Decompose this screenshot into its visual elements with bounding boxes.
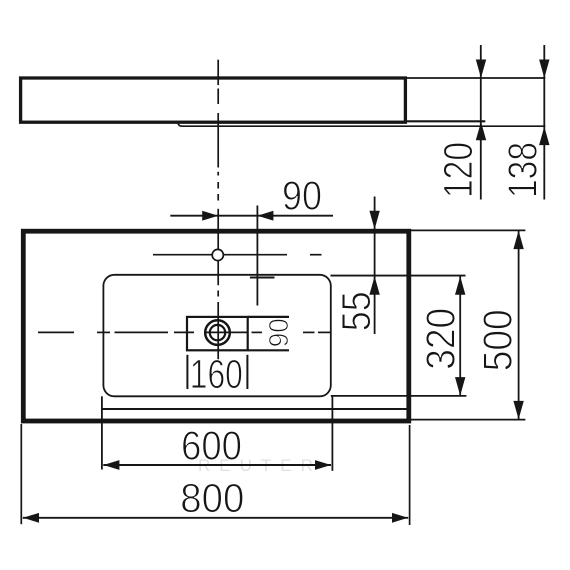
dimension 120 top arrow	[476, 60, 486, 79]
dimension 160 left bar	[186, 355, 188, 389]
dimension 800 left arrow	[23, 513, 39, 523]
dimension 90 right arrow	[257, 211, 273, 221]
dimension 320 top arrow	[455, 276, 465, 295]
dimension 138 top arrow	[539, 60, 549, 79]
dimension 160 right bar	[246, 355, 248, 389]
dimension 600 left arrow	[103, 460, 119, 470]
dimension 55 top arrow	[369, 211, 379, 230]
dimension 90 left arrow	[202, 211, 218, 221]
svg-text:800: 800	[180, 475, 244, 521]
dimension 320 bottom arrow	[455, 377, 465, 396]
drain outer circle	[205, 320, 230, 345]
dimension 600 line	[103, 464, 331, 466]
faucet hole	[212, 249, 223, 260]
dimension 500 top extension	[411, 229, 525, 231]
dimension 500 bottom extension	[411, 419, 525, 421]
drain dimension 90 top bar	[248, 316, 289, 318]
dimension 55 line	[374, 197, 376, 335]
dimension 800 right extension	[409, 425, 411, 525]
drain rectangle	[187, 317, 248, 350]
svg-text:120: 120	[435, 142, 481, 198]
svg-text:500: 500	[475, 309, 521, 371]
dimension 90 extension line	[256, 206, 258, 306]
svg-text:600: 600	[181, 422, 242, 468]
faucet hole horizontal centerline	[153, 254, 322, 256]
svg-text:55: 55	[333, 291, 379, 331]
dimension 800 line	[23, 517, 408, 519]
plan view outer rim	[23, 231, 409, 421]
dimension 138 line	[543, 45, 545, 200]
dimension 120 line	[480, 45, 482, 200]
vertical centerline	[217, 60, 219, 360]
dimension 55 bottom arrow	[369, 276, 379, 295]
dimension 500 line	[518, 230, 520, 419]
front edge line	[102, 408, 407, 410]
dimension 800 right arrow	[392, 513, 408, 523]
plan view inner bowl	[103, 275, 330, 397]
svg-text:320: 320	[417, 308, 463, 370]
dimension 600 right extension	[331, 396, 333, 471]
dimension 500 top arrow	[513, 231, 523, 250]
dimension 138 bottom arrow	[539, 127, 549, 146]
bowl top extension line	[331, 275, 466, 277]
svg-text:160: 160	[190, 351, 243, 397]
side view bottom thin edge (138 level)	[178, 123, 545, 126]
dimension 320 line	[459, 276, 461, 396]
dimension 500 bottom arrow	[513, 401, 523, 420]
side view basin body	[21, 78, 406, 122]
bowl bottom edge extension	[331, 395, 467, 397]
horizontal centerline	[38, 331, 331, 333]
svg-text:90: 90	[263, 318, 294, 347]
dimension 600 right arrow	[315, 460, 331, 470]
svg-text:138: 138	[500, 142, 546, 198]
dimension 90 top line	[170, 215, 333, 217]
bowl top tick	[250, 276, 275, 278]
drain inner circle	[210, 325, 225, 340]
drain dimension 90 bottom bar	[248, 349, 289, 351]
svg-text:90: 90	[282, 172, 322, 218]
side view bottom edge extension (120 level)	[406, 120, 485, 122]
side view top edge extension line	[407, 77, 545, 79]
dimension 800 left extension	[20, 424, 22, 524]
dimension 600 left extension	[101, 396, 103, 469]
dimension 120 bottom arrow	[476, 122, 486, 141]
